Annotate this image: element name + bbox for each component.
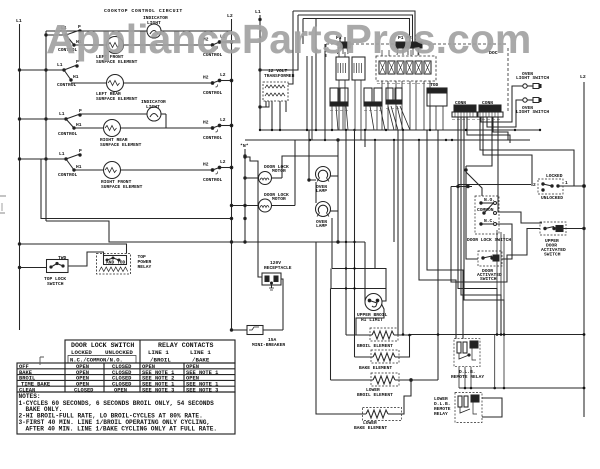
oven lamp 1 xyxy=(308,130,331,194)
junctions bus y130 xyxy=(259,129,541,131)
svg-text:N.O.: N.O. xyxy=(484,197,495,203)
left front surface element xyxy=(96,37,138,66)
svg-text:1: 1 xyxy=(565,180,568,186)
wire columns DOC to buses xyxy=(315,19,317,131)
wire col 394 398 403 xyxy=(393,140,395,242)
wire relay bank pins xyxy=(382,81,430,130)
wire col 386 down xyxy=(382,289,386,302)
wire bus y388 xyxy=(459,387,584,389)
wire lamp loop xyxy=(330,175,338,177)
relay bank dashed xyxy=(376,50,436,81)
right front surface element xyxy=(101,162,143,191)
svg-text:SWITCH: SWITCH xyxy=(47,281,64,287)
switch control LF xyxy=(45,24,82,53)
svg-text:*N*: *N* xyxy=(240,143,249,149)
svg-text:TWD: TWD xyxy=(58,255,67,261)
wire col 346 xyxy=(345,130,347,335)
wire top bus mid xyxy=(298,15,413,42)
svg-text:L1: L1 xyxy=(16,18,22,24)
svg-text:H1: H1 xyxy=(76,164,82,170)
wire L1 to relay top y244 xyxy=(18,243,126,254)
wire receptacle to breaker xyxy=(281,279,283,330)
lower DLB remote relay xyxy=(434,393,482,423)
connector P2 xyxy=(396,35,422,55)
wire N to receptacle xyxy=(244,219,246,243)
svg-text:CONTROL: CONTROL xyxy=(58,131,78,137)
wire top bus inner xyxy=(303,19,410,43)
wire N feed y220 xyxy=(41,159,232,219)
svg-text:L1: L1 xyxy=(59,151,65,157)
svg-text:BAKE ELEMENT: BAKE ELEMENT xyxy=(354,425,387,431)
wire row1 element xyxy=(74,44,107,46)
oven light switch 2 xyxy=(516,98,549,116)
12 volt transformer xyxy=(263,68,295,130)
junction L2 y241 xyxy=(230,241,232,243)
switch control RR xyxy=(18,108,82,137)
svg-text:CONTROL: CONTROL xyxy=(203,135,223,141)
svg-text:LINE 1: LINE 1 xyxy=(148,349,169,356)
svg-text:H1: H1 xyxy=(76,122,82,128)
wire col 332 xyxy=(332,211,376,269)
svg-text:REMOTE RELAY: REMOTE RELAY xyxy=(451,374,484,380)
wire hi-limit to broil element xyxy=(356,304,384,335)
wire bus left drops xyxy=(288,11,293,84)
svg-text:LIGHT SWITCH: LIGHT SWITCH xyxy=(516,109,549,115)
wire row4 element xyxy=(74,169,104,171)
svg-text:L2: L2 xyxy=(220,72,226,78)
svg-text:RELAY: RELAY xyxy=(434,411,448,417)
svg-text:CONTROL: CONTROL xyxy=(203,177,223,183)
wire col 410 419 xyxy=(419,140,456,339)
svg-text:BAKE ELEMENT: BAKE ELEMENT xyxy=(359,365,392,371)
locked unlocked switch xyxy=(533,173,585,201)
lower broil element xyxy=(331,373,439,398)
wire bus y130 xyxy=(260,129,540,131)
wire y268 xyxy=(332,268,375,270)
table door lock switch / relay contacts xyxy=(17,340,235,393)
broil element xyxy=(346,328,398,349)
wire relay K1 K2 pins xyxy=(339,88,361,140)
svg-text:MOTOR: MOTOR xyxy=(272,196,286,202)
connector CN2 xyxy=(477,100,503,117)
relay group mid2 xyxy=(364,88,385,130)
svg-text:H2: H2 xyxy=(203,162,209,168)
net N xyxy=(240,143,249,220)
wire lower bus y221 xyxy=(46,221,365,242)
svg-text:L1: L1 xyxy=(57,62,63,68)
wire bus y140 xyxy=(245,139,530,141)
wire relay bottom drops xyxy=(459,367,471,388)
svg-text:UNLOCKED: UNLOCKED xyxy=(105,349,133,356)
junctions on feeder rows xyxy=(345,241,356,290)
svg-text:SWITCH: SWITCH xyxy=(480,276,497,282)
svg-text:SURFACE ELEMENT: SURFACE ELEMENT xyxy=(96,96,138,102)
door lock switch xyxy=(467,196,511,243)
svg-text:L2: L2 xyxy=(220,159,226,165)
switch control RF xyxy=(18,148,82,178)
switch control row2 right xyxy=(203,72,233,96)
door lock assembly outline xyxy=(451,185,540,283)
connector CN1 xyxy=(452,100,478,117)
switch control LR xyxy=(18,59,79,88)
svg-text:L2: L2 xyxy=(220,117,226,123)
bake element xyxy=(355,335,410,371)
TDP power relay xyxy=(97,254,152,275)
svg-text:H2: H2 xyxy=(203,120,209,126)
svg-text:SWITCH: SWITCH xyxy=(544,252,561,258)
svg-text:BROIL ELEMENT: BROIL ELEMENT xyxy=(357,343,393,349)
wire lower relay loop xyxy=(482,398,502,417)
door lock motor 1 xyxy=(245,156,338,185)
wire row3 element xyxy=(74,127,104,129)
svg-text:DOOR LOCK SWITCH: DOOR LOCK SWITCH xyxy=(467,237,511,243)
upper door activated switch xyxy=(540,222,585,258)
relay TOD xyxy=(427,82,447,130)
svg-text:MINI-BREAKER: MINI-BREAKER xyxy=(252,342,285,348)
svg-text:SURFACE ELEMENT: SURFACE ELEMENT xyxy=(100,142,142,148)
svg-text:H2: H2 xyxy=(203,75,209,81)
svg-text:L2: L2 xyxy=(580,74,586,80)
top lock switch xyxy=(18,255,68,287)
svg-text:UNLOCKED: UNLOCKED xyxy=(541,195,563,201)
wire L1 branch vertical xyxy=(45,31,47,221)
svg-text:AppliancePartsPros.com: AppliancePartsPros.com xyxy=(46,16,531,62)
svg-text:AND TOD: AND TOD xyxy=(106,260,126,266)
oven lamp 2 xyxy=(316,182,331,229)
svg-text:COOKTOP CONTROL CIRCUIT: COOKTOP CONTROL CIRCUIT xyxy=(104,8,183,14)
wire bus y334.5 xyxy=(394,334,584,337)
15A mini-breaker xyxy=(230,326,285,349)
wire row2 element xyxy=(71,82,107,84)
upper broil hi limit xyxy=(357,294,388,324)
svg-text:L1: L1 xyxy=(255,9,261,15)
door activated switch xyxy=(466,172,512,282)
wire door lock contacts xyxy=(497,224,513,230)
oven light switch 1 xyxy=(516,71,549,89)
svg-text:DOOR LOCK SWITCH: DOOR LOCK SWITCH xyxy=(71,342,134,349)
wire columns 307 312 xyxy=(307,56,312,140)
svg-text:P: P xyxy=(79,148,82,154)
margin scan marks xyxy=(0,196,44,365)
svg-text:RECEPTACLE: RECEPTACLE xyxy=(264,265,292,271)
wire top lock to relay xyxy=(68,252,104,266)
door lock motor 2 xyxy=(230,140,295,212)
wire top bus outer xyxy=(293,11,415,42)
svg-text:LAMP: LAMP xyxy=(316,223,327,229)
relay group mid3 xyxy=(386,88,410,130)
svg-text:TRANSFORMER: TRANSFORMER xyxy=(264,73,295,79)
DOC dashed box xyxy=(326,44,508,112)
relay K2 xyxy=(352,57,365,88)
relay K1 xyxy=(336,52,349,88)
svg-text:LOCKED: LOCKED xyxy=(71,349,92,356)
svg-text:RELAY: RELAY xyxy=(138,264,152,270)
wire door activated feed xyxy=(455,130,479,258)
pin label ticks xyxy=(330,84,500,120)
lower bake element xyxy=(316,242,411,431)
svg-text:LIGHT SWITCH: LIGHT SWITCH xyxy=(516,75,549,81)
svg-text:N.C.: N.C. xyxy=(484,218,495,224)
wire oven light feed xyxy=(481,86,523,122)
notes xyxy=(17,392,235,434)
svg-text:MOTOR: MOTOR xyxy=(272,168,286,174)
svg-text:CONTROL: CONTROL xyxy=(58,172,78,178)
wire row1 indicator bus xyxy=(46,30,147,32)
svg-text:LAMP: LAMP xyxy=(316,188,327,194)
svg-text:H1: H1 xyxy=(73,74,79,80)
wire col 375 xyxy=(374,140,376,269)
junctions bus y140 xyxy=(309,139,453,141)
svg-text:TOD: TOD xyxy=(430,82,439,88)
indicator light 1 xyxy=(143,15,168,38)
svg-text:LIGHT: LIGHT xyxy=(146,104,160,110)
wire col 365 corner xyxy=(364,130,366,147)
switch control row3 right xyxy=(203,117,233,141)
svg-text:RELAY CONTACTS: RELAY CONTACTS xyxy=(158,342,213,349)
svg-text:L1: L1 xyxy=(59,111,65,117)
120V receptacle xyxy=(262,260,292,290)
svg-text:2: 2 xyxy=(533,182,536,188)
svg-text:SURFACE ELEMENT: SURFACE ELEMENT xyxy=(101,184,143,190)
svg-text:P: P xyxy=(79,108,82,114)
connector P1 xyxy=(336,35,350,54)
indicator light 2 xyxy=(80,99,166,128)
wire col 427 437 xyxy=(430,130,452,339)
wire col 354.5 xyxy=(354,130,356,357)
relay group mid1 xyxy=(330,88,348,130)
switch control row1 right xyxy=(203,34,233,59)
svg-text:BROIL ELEMENT: BROIL ELEMENT xyxy=(357,392,393,398)
svg-text:LOCKED: LOCKED xyxy=(546,173,563,179)
wire y288 xyxy=(331,288,387,290)
DLB remote relay xyxy=(451,339,484,380)
svg-text:AFTER 40 MIN. LINE 1/BAKE CYCL: AFTER 40 MIN. LINE 1/BAKE CYCLING ONLY A… xyxy=(26,425,218,432)
svg-text:LINE 1: LINE 1 xyxy=(190,349,211,356)
right rear surface element xyxy=(100,120,142,149)
wire right fan elbows xyxy=(458,117,497,335)
svg-text:CONTROL: CONTROL xyxy=(203,90,223,96)
left rear surface element xyxy=(96,75,138,103)
switch control row4 right xyxy=(203,159,233,183)
